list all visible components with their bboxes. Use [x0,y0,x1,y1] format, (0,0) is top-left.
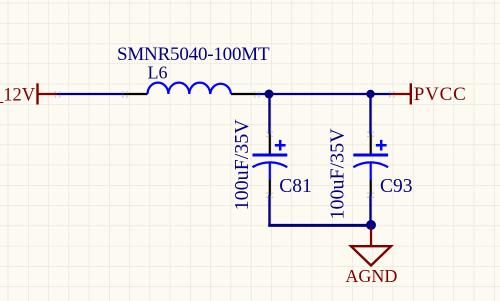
svg-text:L6: L6 [148,63,168,83]
svg-text:C93: C93 [380,176,413,197]
svg-text:100uF/35V: 100uF/35V [327,128,349,220]
svg-text:_12V: _12V [0,86,36,106]
svg-text:PVCC: PVCC [414,84,467,105]
svg-text:SMNR5040-100MT: SMNR5040-100MT [117,44,270,65]
svg-text:C81: C81 [279,176,312,197]
svg-text:100uF/35V: 100uF/35V [231,119,253,211]
svg-text:AGND: AGND [345,266,397,286]
